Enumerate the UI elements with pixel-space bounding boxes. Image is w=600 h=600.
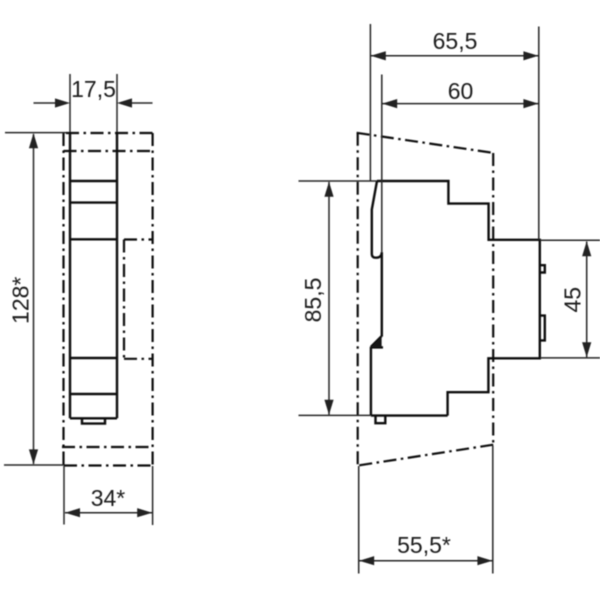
dimension 65,5: right arrowhead — [523, 51, 538, 60]
front view: body bottom edge — [70, 417, 117, 419]
side view: clip claw fill — [372, 337, 382, 347]
dimension 17,5: left tail — [34, 102, 57, 104]
side view: bottom edge — [371, 414, 448, 416]
front view: rib 5 — [70, 393, 117, 395]
front view: body left edge extension (thin upper part) — [69, 74, 71, 133]
dimension 65,5: right extension line — [538, 27, 540, 240]
svg-text:65,5: 65,5 — [433, 28, 478, 54]
front view: envelope top edge (dash-dot) — [66, 132, 153, 134]
svg-text:60: 60 — [448, 78, 474, 104]
dimension 17,5: right arrowhead — [117, 98, 132, 107]
front view: rib 4 — [70, 357, 117, 359]
dimension 128*: top extension line — [5, 132, 66, 134]
dimension 34*: right extension line — [152, 466, 154, 525]
front view: body right edge — [116, 133, 118, 418]
dimension 34*: dimension line — [65, 512, 152, 514]
dimension 128*: bottom extension line — [4, 464, 64, 466]
dimension 128*: dimension line — [33, 134, 35, 464]
dimension 60: dimension line — [382, 103, 538, 105]
dimension 60: left arrowhead — [382, 99, 397, 108]
front view: envelope left edge (dash-dot) — [62, 133, 64, 466]
svg-text:34*: 34* — [91, 485, 126, 511]
front view: rear-step box bottom edge (dash-dot) — [124, 358, 153, 360]
side view: envelope right edge (dash-dot) — [492, 153, 494, 445]
dimension 45: top extension line — [540, 239, 600, 241]
svg-text:128*: 128* — [8, 277, 34, 324]
side view: rear face small bump 1 — [540, 265, 545, 272]
dimension 34*: right arrowhead — [137, 508, 152, 517]
dimension 55,5*: right arrowhead — [477, 556, 492, 565]
svg-text:45: 45 — [560, 287, 586, 313]
dimension 60: left extension line — [381, 75, 383, 253]
side view: bottom clip tab — [376, 416, 386, 424]
front view: rib 2 — [70, 201, 117, 203]
side view: front face middle section — [381, 252, 383, 336]
side view: envelope top slant (dash-dot) — [357, 133, 494, 153]
dimension 17,5: left arrowhead — [55, 98, 70, 107]
dimension 65,5: left arrowhead — [371, 51, 386, 60]
dimension 45: top arrowhead — [582, 241, 591, 256]
side view: top surface and right steps down to rear face — [377, 181, 540, 416]
svg-text:55,5*: 55,5* — [397, 532, 451, 558]
dimension 34*: left extension line — [63, 466, 65, 525]
dimension 85,5: bottom extension line — [299, 414, 371, 416]
dimension 65,5: left extension line — [369, 24, 371, 181]
front view: body left edge — [69, 133, 71, 418]
svg-text:17,5: 17,5 — [71, 76, 116, 102]
dimension 55,5*: right extension line — [492, 446, 494, 574]
dimension 55,5*: dimension line — [359, 560, 492, 562]
dimension 45: dimension line — [586, 242, 588, 358]
dimension 17,5: right tail — [131, 102, 153, 104]
side view: front face lower section — [370, 347, 372, 416]
side view: rear face bump 2 — [540, 316, 545, 341]
front view: rear-step box left edge (dash-dot) — [123, 240, 125, 359]
side view: clip claw ledge — [371, 346, 383, 348]
dimension 45: bottom extension line — [540, 357, 600, 359]
front view: rear-step box top edge (dash-dot) — [124, 238, 153, 240]
dimension 128*: top arrowhead — [29, 133, 38, 148]
svg-text:85,5: 85,5 — [300, 278, 326, 323]
dimension 85,5: bottom arrowhead — [324, 400, 333, 415]
dimension 55,5*: left extension line — [358, 466, 360, 574]
side view: envelope left edge (dash-dot) — [357, 133, 359, 466]
dimension 34*: left arrowhead — [65, 508, 80, 517]
front view: inner envelope line upper (dash-dot) — [64, 150, 153, 152]
dimension 85,5: top extension line — [299, 180, 378, 182]
front view: envelope right edge (dash-dot) — [152, 133, 154, 466]
side view: front face upper slant — [372, 181, 382, 258]
dimension 128*: bottom arrowhead — [29, 449, 38, 464]
dimension 55,5*: left arrowhead — [359, 556, 374, 565]
side view: clip claw diagonal — [371, 336, 382, 346]
front view: inner envelope line lower (dash-dot) — [62, 446, 151, 448]
dimension 85,5: dimension line — [328, 182, 330, 415]
front view: rib 3 — [70, 238, 117, 240]
front view: rib 1 — [70, 180, 117, 182]
front view: body right edge extension (thin upper part) — [116, 74, 118, 133]
front view: bottom clip tab — [82, 418, 105, 423]
dimension 85,5: top arrowhead — [324, 182, 333, 197]
dimension 45: bottom arrowhead — [582, 342, 591, 357]
dimension 65,5: dimension line — [371, 55, 538, 57]
side view: envelope bottom slant (dash-dot) — [358, 445, 493, 466]
front view: envelope bottom edge (dash-dot) — [64, 464, 153, 466]
dimension 60: right arrowhead — [523, 99, 538, 108]
